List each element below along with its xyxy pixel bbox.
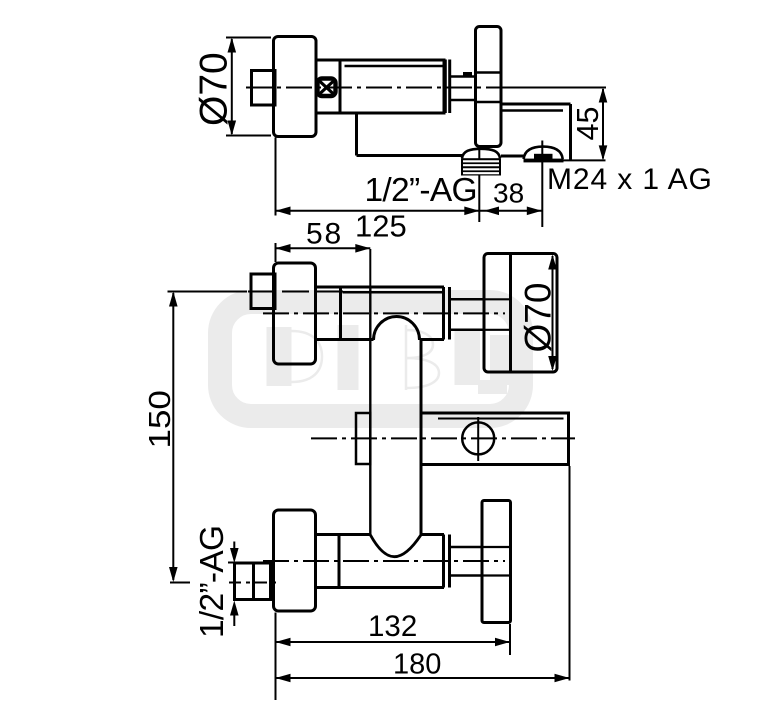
svg-text:M24 x 1 AG: M24 x 1 AG: [547, 163, 713, 196]
svg-text:125: 125: [355, 209, 407, 244]
svg-text:132: 132: [368, 610, 417, 643]
svg-text:150: 150: [142, 390, 177, 448]
svg-text:58: 58: [306, 218, 343, 251]
svg-text:45: 45: [571, 107, 605, 141]
svg-text:1/2”-AG: 1/2”-AG: [365, 172, 477, 209]
svg-text:Ø70: Ø70: [193, 52, 236, 126]
svg-text:180: 180: [393, 649, 441, 681]
svg-text:1/2”-AG: 1/2”-AG: [194, 526, 231, 638]
svg-text:38: 38: [493, 178, 524, 209]
svg-text:Ø70: Ø70: [518, 283, 559, 353]
